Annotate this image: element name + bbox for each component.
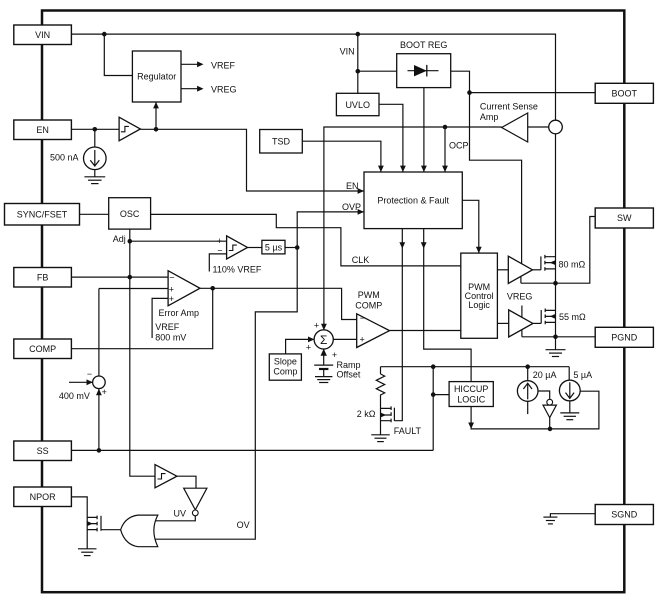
svg-text:55 mΩ: 55 mΩ [559, 312, 586, 322]
svg-text:BOOT: BOOT [612, 89, 638, 99]
svg-text:VREG: VREG [211, 85, 237, 95]
svg-text:400 mV: 400 mV [59, 391, 90, 401]
svg-text:VIN: VIN [35, 30, 50, 40]
svg-text:FB: FB [37, 272, 49, 282]
svg-text:EN: EN [36, 125, 49, 135]
svg-text:OCP: OCP [449, 141, 469, 151]
svg-text:+: + [169, 294, 174, 304]
svg-text:TSD: TSD [272, 137, 291, 147]
svg-text:VREF: VREF [211, 60, 236, 70]
svg-text:CLK: CLK [352, 255, 370, 265]
svg-text:+: + [332, 350, 337, 360]
svg-text:UVLO: UVLO [345, 100, 370, 110]
svg-text:20 µA: 20 µA [533, 370, 557, 380]
svg-text:PWM: PWM [358, 290, 380, 300]
svg-text:LOGIC: LOGIC [457, 394, 486, 404]
svg-text:SYNC/FSET: SYNC/FSET [17, 210, 68, 220]
svg-text:Comp: Comp [273, 366, 297, 376]
svg-text:Logic: Logic [468, 300, 490, 310]
svg-text:Ramp: Ramp [337, 360, 361, 370]
svg-text:+: + [306, 342, 311, 352]
svg-text:80 mΩ: 80 mΩ [559, 259, 586, 269]
svg-text:5 µA: 5 µA [573, 370, 592, 380]
svg-text:Offset: Offset [337, 370, 361, 380]
svg-text:BOOT REG: BOOT REG [400, 40, 447, 50]
svg-text:Slope: Slope [274, 357, 297, 367]
svg-text:500 nA: 500 nA [50, 153, 79, 163]
svg-text:COMP: COMP [29, 344, 56, 354]
svg-text:+: + [314, 320, 319, 330]
svg-text:OSC: OSC [120, 209, 140, 219]
svg-text:VREF: VREF [155, 322, 180, 332]
svg-text:2 kΩ: 2 kΩ [357, 409, 376, 419]
svg-text:OV: OV [237, 520, 250, 530]
svg-text:FAULT: FAULT [394, 426, 422, 436]
svg-text:Error Amp: Error Amp [159, 308, 200, 318]
svg-text:−: − [217, 246, 222, 256]
svg-text:Amp: Amp [480, 112, 499, 122]
svg-text:Protection & Fault: Protection & Fault [377, 196, 449, 206]
svg-text:EN: EN [346, 181, 359, 191]
svg-text:VIN: VIN [340, 47, 355, 57]
svg-text:NPOR: NPOR [30, 492, 57, 502]
svg-text:110% VREF: 110% VREF [213, 265, 262, 275]
svg-text:Adj: Adj [113, 234, 126, 244]
svg-text:HICCUP: HICCUP [454, 384, 489, 394]
svg-text:OVP: OVP [342, 202, 361, 212]
svg-text:−: − [169, 273, 174, 283]
svg-text:+: + [169, 284, 174, 294]
svg-text:PGND: PGND [611, 333, 638, 343]
svg-text:SGND: SGND [611, 510, 638, 520]
svg-text:COMP: COMP [355, 300, 382, 310]
svg-text:+: + [102, 387, 107, 397]
svg-text:−: − [360, 313, 365, 323]
svg-text:SS: SS [37, 446, 49, 456]
svg-text:UV: UV [174, 509, 187, 519]
svg-text:Σ: Σ [320, 333, 327, 347]
svg-text:−: − [87, 369, 92, 379]
svg-text:800 mV: 800 mV [155, 333, 186, 343]
svg-text:VREG: VREG [507, 292, 533, 302]
svg-text:Current Sense: Current Sense [480, 102, 538, 112]
svg-text:SW: SW [617, 213, 632, 223]
svg-text:+: + [360, 334, 365, 344]
svg-text:Regulator: Regulator [137, 72, 176, 82]
svg-text:5 µs: 5 µs [265, 243, 283, 253]
